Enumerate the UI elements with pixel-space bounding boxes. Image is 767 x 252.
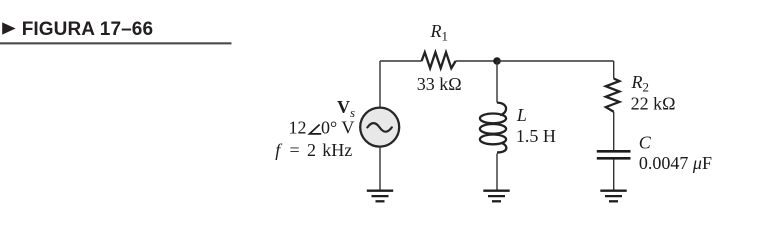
svg-text:0.0047 μF: 0.0047 μF	[639, 153, 712, 173]
ground symbol below capacitor	[600, 191, 626, 202]
wire right corner down to R2	[613, 61, 615, 79]
svg-text:1.5 H: 1.5 H	[516, 126, 556, 146]
wire from R1 to node	[456, 60, 497, 62]
svg-text:Vs: Vs	[337, 97, 355, 120]
wire top horizontal from source corner to R1	[380, 60, 422, 62]
value label 33 kOhm	[417, 74, 462, 94]
svg-text:FIGURA 17–66: FIGURA 17–66	[22, 19, 153, 40]
node junction dot	[493, 57, 501, 65]
wire from capacitor to ground	[613, 159, 615, 189]
svg-text:33 kΩ: 33 kΩ	[417, 74, 462, 94]
svg-text:0° V: 0° V	[321, 118, 354, 138]
wire from inductor to ground	[496, 154, 498, 190]
label f = 2 kHz	[275, 140, 352, 160]
capacitor C plates	[597, 151, 631, 158]
figure title triangle marker	[2, 22, 15, 34]
svg-text:f: f	[275, 140, 283, 160]
label C	[639, 133, 652, 153]
angle symbol	[310, 125, 322, 134]
source VS circle	[360, 108, 399, 147]
label R1	[430, 21, 449, 44]
wire from source bottom to ground	[379, 146, 381, 189]
label VS bold	[337, 97, 355, 120]
resistor R2 vertical zigzag	[606, 79, 620, 112]
label R2	[631, 72, 650, 95]
svg-text:12: 12	[289, 118, 307, 138]
value label 0.0047 uF	[639, 153, 712, 173]
svg-text:R1: R1	[430, 21, 449, 44]
svg-text:kHz: kHz	[322, 140, 352, 160]
wire left vertical from corner down to source	[379, 61, 381, 108]
label "0(deg) V" part	[321, 118, 354, 138]
label 12 angle 0 degrees V : "12" part	[289, 118, 307, 138]
svg-text:2: 2	[307, 140, 316, 160]
svg-text:22 kΩ: 22 kΩ	[631, 93, 676, 113]
ground symbol below source	[367, 191, 393, 202]
label L	[516, 105, 527, 125]
figure title text FIGURA 17-66	[22, 19, 153, 40]
wire from R2 to capacitor	[613, 112, 615, 150]
resistor R1 zigzag	[422, 52, 456, 68]
ground symbol below inductor	[483, 191, 509, 202]
figure title underline rule	[0, 42, 232, 44]
svg-text:L: L	[516, 105, 527, 125]
wire from node to right corner	[497, 60, 614, 62]
wire from node down to inductor	[496, 61, 498, 103]
source sine wave symbol	[367, 123, 391, 132]
svg-text:C: C	[639, 133, 652, 153]
svg-text:R2: R2	[631, 72, 650, 95]
value label 22 kOhm	[631, 93, 676, 113]
inductor L coil	[480, 103, 506, 153]
value label 1.5 H	[516, 126, 556, 146]
svg-text:=: =	[290, 140, 300, 160]
